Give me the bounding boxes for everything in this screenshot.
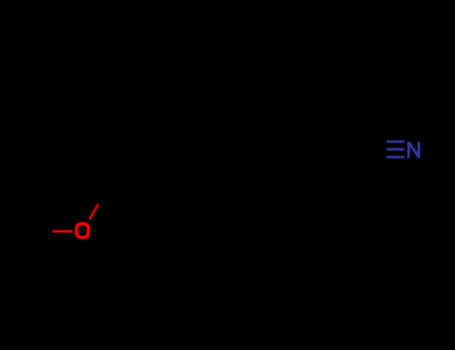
atom label O (methoxy oxygen): outer contour [75, 222, 90, 239]
bond O-C(aryl), oxygen-colored half [90, 204, 99, 219]
atom label N: right stem [417, 142, 420, 159]
nitrile triple bond C#N, line 3 (bottom) [386, 156, 404, 158]
atom label N (nitrile nitrogen): left stem [407, 142, 410, 159]
nitrile triple bond C#N, line 1 (top) [386, 140, 404, 142]
nitrile triple bond C#N, line 2 (middle) [386, 148, 404, 150]
bond CH3-O (methyl to methoxy oxygen) [53, 230, 73, 232]
atom label N: diagonal [409, 142, 419, 157]
